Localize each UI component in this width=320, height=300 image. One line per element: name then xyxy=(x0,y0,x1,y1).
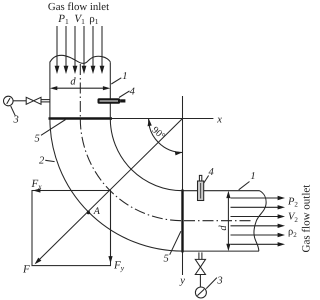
outlet flow arrow 1 xyxy=(231,196,286,200)
leader to label 4 (outlet) xyxy=(204,176,209,184)
bend outer wall arc xyxy=(50,119,183,252)
valve to gauge line (bottom) xyxy=(199,274,201,287)
svg-text:3: 3 xyxy=(13,115,19,126)
inlet flow arrow 2 xyxy=(64,26,69,74)
inlet flange xyxy=(49,117,113,119)
outlet pipe break wave xyxy=(254,191,266,251)
svg-text:1: 1 xyxy=(122,71,127,82)
valve (left) xyxy=(26,97,41,104)
svg-text:3: 3 xyxy=(216,276,222,287)
svg-text:4: 4 xyxy=(209,167,215,178)
outlet centerline xyxy=(184,220,252,222)
svg-text:Gas flow inlet: Gas flow inlet xyxy=(48,1,109,13)
bend centerline arc xyxy=(80,119,182,221)
outlet pipe top wall xyxy=(183,190,260,192)
svg-text:d: d xyxy=(70,77,76,88)
valve (bottom) xyxy=(195,259,205,274)
inlet d dimension xyxy=(50,86,110,90)
svg-text:5: 5 xyxy=(35,133,40,144)
svg-text:Gas flow outlet: Gas flow outlet xyxy=(301,185,313,253)
valve stub (bottom) xyxy=(199,252,202,259)
gauge to valve line (left) xyxy=(13,100,26,102)
inlet flow arrow 5 xyxy=(91,26,96,74)
90 degree angle arc xyxy=(148,119,183,156)
svg-text:y: y xyxy=(179,276,185,287)
point A xyxy=(87,211,90,214)
outlet flow arrow 2 xyxy=(231,205,286,209)
leader to label 4 (inlet) xyxy=(119,91,130,98)
force square xyxy=(32,191,111,266)
probe fitting 4 (outlet) xyxy=(198,175,204,200)
inlet pipe right wall xyxy=(109,62,111,117)
bend inner wall arc xyxy=(110,119,182,191)
inlet flow arrow 1 xyxy=(55,26,60,74)
leader to label 5 (left) xyxy=(41,120,66,136)
leader to label 1 (inlet) xyxy=(111,78,121,84)
inlet pipe break wave xyxy=(50,55,110,63)
inlet flow arrow 4 xyxy=(82,26,87,74)
leader to label 3 (left) xyxy=(11,106,16,116)
outlet flow arrow 4 xyxy=(231,224,286,228)
leader to label 1 (outlet) xyxy=(239,182,250,190)
pressure gauge (bottom) xyxy=(195,287,206,298)
leader to label 3 (bottom) xyxy=(206,278,217,289)
outlet flow arrow 3 xyxy=(231,214,286,218)
inlet flow arrow 6 xyxy=(100,26,105,74)
outlet d dimension xyxy=(226,191,230,251)
y axis xyxy=(182,96,184,275)
inlet pipe left wall xyxy=(49,62,51,118)
svg-text:A: A xyxy=(93,206,101,217)
svg-text:d: d xyxy=(218,225,229,231)
svg-text:2: 2 xyxy=(39,156,45,167)
leader to label 2 xyxy=(45,160,54,161)
diagonal 45deg line with force F arrow xyxy=(35,119,183,265)
outlet pipe bottom wall xyxy=(183,250,260,252)
outlet flow arrow 6 xyxy=(231,242,286,246)
probe fitting 4 (inlet) xyxy=(98,98,126,103)
x axis xyxy=(111,118,214,120)
svg-text:1: 1 xyxy=(250,171,255,182)
outlet flange xyxy=(181,190,183,253)
force Fy arrow xyxy=(108,191,112,264)
inlet flow arrow 3 xyxy=(73,26,78,74)
pressure gauge (left) xyxy=(4,96,14,106)
svg-text:F: F xyxy=(22,264,30,276)
svg-text:4: 4 xyxy=(130,87,136,98)
valve stub (left) xyxy=(41,100,50,102)
leader to label 5 (outlet) xyxy=(170,231,181,255)
svg-text:x: x xyxy=(216,115,222,126)
force Fx arrow xyxy=(33,188,111,192)
inlet centerline xyxy=(79,64,81,119)
svg-text:5: 5 xyxy=(164,253,169,264)
outlet flow arrow 5 xyxy=(231,233,286,237)
